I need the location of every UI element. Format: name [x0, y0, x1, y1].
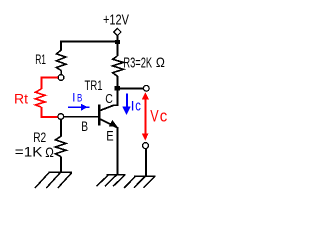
resistor Rt [35, 89, 45, 107]
svg-text:c: c [160, 106, 168, 125]
resistor R2 [55, 136, 66, 156]
svg-text:TR1: TR1 [85, 78, 103, 93]
svg-text:R3=2K: R3=2K [123, 54, 152, 71]
svg-text:+12V: +12V [103, 11, 129, 28]
svg-text:Ω: Ω [156, 54, 165, 70]
junction dot collector node [115, 86, 120, 90]
resistor R3 [113, 44, 124, 87]
wire node A to Rt [41, 77, 58, 89]
svg-text:=1K: =1K [15, 144, 43, 160]
wire +12V stub [116, 36, 118, 41]
svg-text:I: I [72, 90, 75, 104]
wire top rail [60, 40, 117, 42]
svg-text:c: c [135, 98, 141, 114]
wire node B to R2 [60, 119, 62, 136]
wire R1 to node A [60, 71, 62, 75]
svg-text:V: V [150, 106, 159, 125]
voltage arrow Vc double-headed [142, 92, 149, 141]
wire Rt to node B [41, 107, 58, 117]
ground under R2 [35, 172, 72, 188]
svg-text:I: I [131, 97, 135, 113]
svg-text:B: B [81, 118, 88, 134]
ground under output [124, 176, 155, 188]
node A open circle [58, 75, 64, 81]
wire collector node to output [120, 87, 144, 89]
svg-text:B: B [77, 92, 82, 104]
node B open circle [58, 114, 64, 120]
svg-text:E: E [106, 127, 113, 143]
svg-text:C: C [105, 91, 113, 106]
wire rail drop to R1 [60, 41, 62, 51]
transistor TR1 [98, 91, 118, 175]
resistor R1 [56, 50, 66, 71]
current arrow Ic [122, 93, 131, 114]
node output ground terminal circle [143, 143, 149, 149]
svg-text:Rt: Rt [14, 91, 28, 106]
wire node B to base [64, 116, 99, 118]
svg-text:Ω: Ω [45, 144, 54, 160]
ground under emitter [97, 175, 126, 187]
junction dot at rail [115, 40, 120, 44]
svg-text:R1: R1 [35, 51, 46, 67]
wire output terminal to ground [145, 149, 147, 177]
wire R2 to ground [60, 156, 62, 172]
current arrow IB [68, 104, 89, 111]
node output open circle [143, 85, 149, 91]
power terminal diamond [114, 28, 121, 35]
